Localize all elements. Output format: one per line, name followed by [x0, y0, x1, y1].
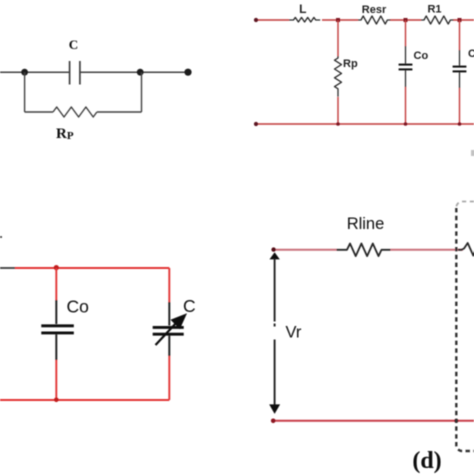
wire: main horizontal right segment	[80, 71, 188, 73]
inductor L	[289, 17, 320, 22]
svg-text:Co: Co	[67, 297, 89, 317]
wire: bottom rail	[256, 123, 474, 125]
svg-text:RP: RP	[56, 126, 74, 142]
resistor Rp zigzag	[53, 107, 97, 117]
capacitor Co branch	[405, 20, 407, 46]
wire: top rail red	[15, 267, 169, 269]
arrow Vr (double-headed)	[270, 252, 280, 259]
wire: main horizontal left segment	[0, 71, 70, 73]
node: junction B (top of Co)	[404, 18, 408, 22]
wire: top rail pink-red left	[275, 249, 337, 251]
variable capacitor arrow	[156, 322, 178, 346]
node: input terminal dot	[254, 18, 258, 22]
node: output terminal dot	[184, 69, 191, 76]
node: junction C (top of C)	[458, 18, 462, 22]
capacitor C plates	[69, 61, 71, 85]
resistor Rp vertical zigzag	[335, 56, 342, 97]
variable capacitor C branch	[168, 268, 170, 302]
svg-text:Vr: Vr	[286, 324, 302, 342]
svg-text:(d): (d)	[412, 448, 441, 474]
svg-text:C: C	[468, 48, 474, 60]
artifact: clipped tick at left edge	[0, 236, 2, 238]
wire: lower branch left horizontal	[25, 111, 53, 113]
wire: lower branch right horizontal	[97, 111, 142, 113]
node: dot where rail crosses dashed box	[454, 419, 458, 423]
node: left junction dot	[21, 69, 28, 76]
svg-text:C: C	[183, 296, 196, 316]
dashed boundary box: top edge (faint)	[456, 202, 474, 210]
node: junction dot top of Co	[54, 265, 59, 270]
resistor R1 zigzag	[421, 16, 453, 24]
svg-text:Rp: Rp	[343, 58, 358, 70]
wire: bottom rail red	[273, 420, 474, 422]
resistor Resr zigzag	[358, 16, 390, 24]
svg-text:R1: R1	[427, 4, 441, 16]
wire: top rail black stub	[0, 267, 15, 269]
wire: lower branch left vertical	[24, 72, 26, 112]
capacitor C branch (right edge)	[459, 20, 461, 50]
wire: top rail pink-red right	[391, 249, 464, 251]
svg-text:Rline: Rline	[347, 215, 385, 233]
wire: bottom rail	[0, 399, 169, 401]
resistor (clipped) right of dashed box	[458, 243, 474, 256]
node: top-left terminal dot	[271, 247, 275, 251]
svg-text:Co: Co	[414, 50, 429, 62]
resistor Rline zigzag	[337, 244, 391, 257]
wire: Rp branch red bottom	[337, 97, 339, 124]
wire: top rail red segments	[256, 19, 289, 21]
node: right junction dot	[137, 69, 144, 76]
artifact: clipped grey text at edge	[471, 150, 474, 156]
node: bottom junction dots	[336, 122, 340, 126]
capacitor Co branch	[55, 268, 57, 300]
wire: lower branch right vertical	[141, 72, 143, 112]
svg-text:Resr: Resr	[362, 4, 387, 16]
dashed boundary box: left and bottom edges	[456, 208, 474, 451]
node: junction dot bottom of Co	[54, 398, 59, 403]
node: bottom-left terminal dot	[271, 419, 276, 424]
node: junction A (top of Rp)	[336, 18, 340, 22]
svg-text:C: C	[69, 37, 78, 52]
node: bottom-left terminal dot	[254, 122, 258, 126]
svg-text:L: L	[299, 2, 306, 16]
wire: Rp branch red top	[337, 20, 339, 56]
